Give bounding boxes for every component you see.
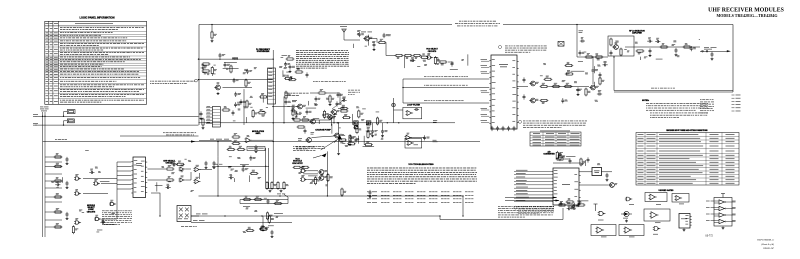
boxed resistor option R2 xyxy=(67,119,74,123)
capacitor C11 xyxy=(66,157,69,162)
DIP IC U253 on bus xyxy=(268,68,276,104)
table LPI row 3 description xyxy=(60,34,101,37)
notes side column xyxy=(700,99,714,113)
cluster comps above vco left xyxy=(227,146,236,151)
transistor Q72 xyxy=(333,133,342,138)
sprinkle component caph at 605,64 xyxy=(603,61,608,66)
gnd C12 xyxy=(66,186,69,189)
capacitor C113 xyxy=(451,61,454,66)
resistor R81 xyxy=(232,133,241,138)
unused nand U904A xyxy=(594,204,598,211)
sprinkle wire xyxy=(318,120,320,124)
capacitor C223 xyxy=(577,87,580,92)
note above band lines right xyxy=(505,46,547,53)
nand gate U91A xyxy=(300,167,307,173)
sprinkle wire xyxy=(156,182,158,191)
note charge pump bottom xyxy=(296,147,315,150)
boxed resistor on line B1 xyxy=(354,121,359,125)
resistor R67 xyxy=(329,95,334,104)
resistor R65 xyxy=(340,107,349,112)
resistor R204 xyxy=(540,83,549,88)
note text right of logic table xyxy=(150,81,195,84)
capacitor C310 xyxy=(560,201,563,206)
sprinkle component hres at 261,112 xyxy=(258,109,267,114)
sprinkle wire xyxy=(450,68,458,70)
sprinkle labels xyxy=(559,152,601,165)
arrow bottom left PTT xyxy=(338,135,343,140)
table model frequencies title xyxy=(540,130,570,133)
resistor R75 xyxy=(338,139,347,143)
label right end y122.8 xyxy=(433,120,437,122)
sprinkle labels xyxy=(279,57,289,76)
svg-text:UNUSED GATES: UNUSED GATES xyxy=(659,189,675,192)
sprinkle wire xyxy=(656,58,663,60)
unused diode CR901 xyxy=(621,211,632,216)
sprinkle wire xyxy=(262,96,264,103)
label TP1 xyxy=(340,25,347,28)
sprinkle component capv at 573,206 xyxy=(572,204,579,209)
wire bus x117 to U10 pins xyxy=(116,162,118,190)
capacitor C221 xyxy=(523,77,526,82)
wire tp1 down xyxy=(344,34,360,40)
dark connector square J7 xyxy=(355,126,358,129)
svg-text:MODELS TRE4281G—TRE4284G: MODELS TRE4281G—TRE4284G xyxy=(717,13,778,18)
resistor R66 xyxy=(318,89,327,94)
sprinkle component caph at 168,187 xyxy=(166,184,171,189)
sprinkle wire xyxy=(571,70,585,72)
wire q206 collector up xyxy=(592,73,594,84)
wire synth y79.6 xyxy=(199,79,274,81)
wire band select 2 xyxy=(403,87,489,89)
capacitor C62 xyxy=(306,109,312,114)
unused opamp U902A with feedback box xyxy=(645,193,667,202)
gnd c122 xyxy=(213,166,216,169)
capacitor C35 xyxy=(267,199,270,204)
table LPI row 14 description xyxy=(60,68,124,71)
gnd q111 xyxy=(373,48,376,51)
resistor R215 xyxy=(660,43,669,48)
capacitor C132 xyxy=(355,137,358,142)
sprinkle wire xyxy=(566,156,575,158)
boxed resistor option R1 xyxy=(67,110,75,114)
transistor Q61 xyxy=(296,104,306,109)
resistor R34 xyxy=(274,200,283,205)
resistor R113 xyxy=(395,54,404,58)
right pin column with ticks xyxy=(732,95,741,112)
gnd extra1 xyxy=(329,103,332,106)
module boundary right border xyxy=(732,25,734,93)
stub below top border x212 xyxy=(211,25,213,33)
sprinkle wire xyxy=(97,229,102,231)
vertical wire from top border x577 xyxy=(576,25,578,58)
sprinkle wire xyxy=(155,184,163,186)
resistor R251 xyxy=(202,63,211,67)
notes bullets paragraph xyxy=(646,103,708,110)
sprinkle wire xyxy=(104,224,115,226)
capacitor C66 xyxy=(337,92,343,97)
wire into loop filter xyxy=(394,109,403,111)
sprinkle component caph at 344,100 xyxy=(341,97,346,102)
resistor R216 xyxy=(683,43,692,48)
sprinkle wire xyxy=(100,181,110,183)
label TP right xyxy=(433,140,438,142)
sprinkle component capv at 330,117 xyxy=(329,115,335,120)
resistor R16 xyxy=(54,223,63,228)
sprinkle labels xyxy=(287,98,345,118)
U301 pin feeder lines xyxy=(514,170,551,202)
resistor R15 xyxy=(54,208,63,213)
gnd C141 xyxy=(371,134,374,137)
resistor R112 xyxy=(378,39,387,44)
gnd c212 xyxy=(675,54,678,57)
note paragraph under U10 xyxy=(102,211,132,225)
svg-text:LOGIC PANEL INFORMATION: LOGIC PANEL INFORMATION xyxy=(80,17,115,20)
wire gate outputs to bus x117 xyxy=(83,178,117,180)
U201 label xyxy=(499,63,508,66)
wire vcosel out xyxy=(434,58,438,63)
series resistors into gate U91A xyxy=(293,166,302,168)
wire x244 riser xyxy=(243,89,245,125)
sprinkle component vres at 377,120 xyxy=(376,117,382,126)
unused gate array gnd xyxy=(722,227,725,230)
wire y216 jog down to y219.5 xyxy=(440,208,563,220)
sprinkle component caph at 57,184 xyxy=(55,181,60,186)
label receiver frequency ranges xyxy=(459,20,496,23)
sprinkle labels xyxy=(584,41,680,59)
sprinkle wire xyxy=(266,106,268,108)
sprinkle component hres at 569,73 xyxy=(565,70,574,75)
vertical bus line A xyxy=(42,112,44,237)
wire extra mid xyxy=(310,92,318,94)
transistor Q111 xyxy=(363,36,372,41)
sprinkle wire xyxy=(352,44,354,48)
wire y196 supply line xyxy=(199,195,464,197)
sprinkle component capv at 384,35 xyxy=(383,33,389,38)
resistor R14 xyxy=(54,193,63,198)
test point TP202 circle xyxy=(702,50,704,52)
opamp U102 boxed below xyxy=(405,139,422,148)
sprinkle component hres at 263,229 xyxy=(259,226,268,231)
wire main vertical bus x273 xyxy=(272,50,274,185)
svg-text:RISSD–OP: RISSD–OP xyxy=(762,247,774,250)
sprinkle wire xyxy=(170,162,176,164)
resistor R205 xyxy=(540,99,549,103)
unused opamp U905A with feedback box xyxy=(644,209,670,221)
wire chain y86.5 xyxy=(549,86,590,88)
sprinkle labels xyxy=(410,59,464,67)
capacitor C213 xyxy=(711,52,714,57)
wire x463 riser xyxy=(462,196,464,216)
label electrical feedback xyxy=(651,87,675,90)
U301 label xyxy=(562,183,570,186)
svg-text:NOTES:: NOTES: xyxy=(642,100,650,102)
gnd r132 xyxy=(349,143,352,146)
resistor R253 xyxy=(226,65,232,74)
unused gate U910A xyxy=(653,227,661,231)
sprinkle component caph at 293,110 xyxy=(291,107,296,112)
sprinkle wire xyxy=(467,54,469,65)
sprinkle wire xyxy=(211,75,213,76)
opamp U107 xyxy=(405,133,412,140)
sprinkle component vres at 315,180 xyxy=(314,176,320,185)
loop filter box xyxy=(403,107,422,118)
note under U301 xyxy=(518,207,554,214)
label y196 line xyxy=(277,193,285,196)
capacitor C255 right xyxy=(285,99,291,104)
capacitor C305 xyxy=(606,173,609,178)
sprinkle component caph at 649,41 xyxy=(647,38,652,43)
resistor R201 stub xyxy=(211,31,217,40)
wire q206 top to y57 xyxy=(592,57,594,68)
sprinkle component capv at 243,169 xyxy=(242,167,249,172)
capacitor C302 xyxy=(587,157,590,162)
circled number note xyxy=(195,79,198,82)
table LPI row 2 description xyxy=(60,31,113,34)
sprinkle labels xyxy=(357,30,391,46)
leader diagonal line xyxy=(321,140,337,150)
resistor R310 xyxy=(566,198,575,203)
vco troubleshooting paragraph xyxy=(367,168,477,184)
capacitor C65 xyxy=(315,96,321,101)
transistor Q92 xyxy=(318,176,328,181)
transistor Q73 top xyxy=(309,119,315,124)
resistor R132 xyxy=(349,134,355,143)
nand gate U2B xyxy=(109,200,116,206)
resistor R209 xyxy=(599,77,605,86)
gnd Q31 xyxy=(271,235,274,238)
svg-text:CHARGE PUMP: CHARGE PUMP xyxy=(315,129,331,132)
sprinkle labels xyxy=(243,198,279,233)
sprinkle wire xyxy=(330,118,332,126)
wire arrows above bottom note xyxy=(505,197,556,199)
label ANT JACK xyxy=(704,47,717,49)
label TX small xyxy=(292,99,297,102)
table LOGIC PANEL INFORMATION frame xyxy=(45,21,147,104)
table LPI row 21 description xyxy=(60,94,144,97)
transistor Q251 xyxy=(214,83,220,90)
sprinkle wire xyxy=(246,117,248,123)
svg-text:VCO TROUBLESHOOTING: VCO TROUBLESHOOTING xyxy=(408,164,434,166)
wire band select left riser xyxy=(402,79,404,103)
table RIP column lines xyxy=(644,133,646,186)
nand gate U111 xyxy=(426,53,433,59)
capacitor C111 xyxy=(373,42,376,47)
resistor R21 xyxy=(166,165,175,170)
module boundary bottom-right border xyxy=(614,91,733,93)
gnd c61 xyxy=(289,70,292,73)
opamp U121 xyxy=(194,165,201,172)
sprinkle component vres at 253,113 xyxy=(252,109,258,118)
gnd C142 xyxy=(381,134,384,137)
buffer gate U11B xyxy=(179,176,186,182)
resistor R213 xyxy=(595,56,604,60)
resistor R12 xyxy=(54,163,63,168)
IC U201 frequency synthesizer xyxy=(489,55,518,129)
sprinkle wire xyxy=(357,136,359,144)
table RIP frame xyxy=(636,133,739,186)
sprinkle wire xyxy=(593,82,595,88)
crystal Y201 box with X xyxy=(558,42,564,47)
sprinkle wire xyxy=(313,117,319,119)
sprinkle labels xyxy=(228,156,261,179)
nand gate U2A xyxy=(94,215,101,221)
table LPI row 19 description xyxy=(60,84,144,87)
wire synth top y59.1 xyxy=(199,58,274,60)
transistor Q71 xyxy=(305,138,311,143)
sprinkle component caph at 368,130 xyxy=(366,127,371,132)
wire Q31 up xyxy=(262,216,264,226)
test point antenna TP1 xyxy=(342,29,347,34)
table LPI row 13 description xyxy=(60,65,102,68)
sprinkle component hres at 254,173 xyxy=(250,170,259,175)
table model frequencies frame xyxy=(530,132,581,146)
opamp U101 inside loop filter xyxy=(406,110,414,115)
wire to antenna jack xyxy=(700,50,727,52)
capacitor C34 xyxy=(271,230,274,235)
DIP IC U254 lower xyxy=(212,107,220,128)
sprinkle component caph at 91,172 xyxy=(89,169,94,174)
wire band select 3 xyxy=(403,102,489,104)
wire loop y197-203 xyxy=(239,200,241,204)
table RIP row lines xyxy=(636,136,739,138)
wire main horizontal y122.8 xyxy=(199,122,456,124)
sprinkle component vres at 358,113 xyxy=(358,110,364,119)
sprinkle wire xyxy=(308,175,317,177)
wire lo amp out xyxy=(625,46,635,48)
test point TP201 circle xyxy=(706,50,708,52)
wire vertical x338.6 xyxy=(338,123,340,152)
arrow into charge pump xyxy=(321,153,326,157)
boxed resistor on line B2 xyxy=(366,121,371,125)
table LPI row 11 description xyxy=(60,60,125,63)
sprinkle wire xyxy=(223,67,239,69)
gnd cp2 xyxy=(337,152,340,155)
sprinkle component hres at 547,79 xyxy=(544,76,553,81)
note pair y93.5 xyxy=(285,93,309,96)
resistor R206 xyxy=(552,83,561,88)
module boundary top border xyxy=(199,24,452,26)
capacitor C121 xyxy=(205,161,208,166)
wire buffers out xyxy=(185,168,191,170)
comps right of U254 xyxy=(222,106,231,111)
gnd q61 xyxy=(292,117,295,120)
svg-text:SYNTHESIZER: SYNTHESIZER xyxy=(257,51,270,53)
sprinkle component vres at 368,134 xyxy=(367,130,372,139)
label bus2 left xyxy=(33,123,38,125)
vco voltage rows xyxy=(367,191,473,194)
sprinkle wire xyxy=(331,124,333,134)
junction y196 xyxy=(341,195,342,196)
wire mid horizontal y166.3 xyxy=(212,165,269,167)
sprinkle component hres at 305,120 xyxy=(301,116,310,121)
wire q251 to bus xyxy=(223,87,253,89)
wire riser x268.7 xyxy=(268,148,270,189)
svg-text:HEPS74660B–C: HEPS74660B–C xyxy=(756,239,774,242)
sprinkle component hres at 263,96 xyxy=(259,93,268,98)
sprinkle component hres at 368,144 xyxy=(364,141,373,146)
sprinkle component capv at 235,104 xyxy=(234,102,241,107)
gnd c223 xyxy=(577,93,580,96)
circled 5 xyxy=(514,206,517,209)
sprinkle wire xyxy=(306,107,316,109)
wire u201 to q204 xyxy=(517,86,528,88)
unused opamp U908A with feedback box xyxy=(591,225,616,236)
capacitor C63 xyxy=(306,72,309,77)
capacitor C252 on y79 xyxy=(233,78,239,83)
wire ad top xyxy=(553,162,581,164)
wire long horizontal y222.5 xyxy=(191,222,292,224)
unused quad gate array U907 xyxy=(714,198,732,227)
resistor R301 xyxy=(556,155,565,160)
sprinkle labels xyxy=(161,159,193,192)
sprinkle labels xyxy=(202,65,257,75)
sprinkle component hres at 568,65 xyxy=(564,62,573,67)
gnd C11 xyxy=(66,162,69,165)
transistor Q131 xyxy=(330,110,339,115)
capacitor C222 xyxy=(523,94,526,99)
wire feedback left drop xyxy=(613,57,615,91)
wire feedback y90.5 xyxy=(614,90,733,92)
sprinkle wire xyxy=(237,101,242,103)
wire q61 area xyxy=(273,106,297,108)
bold box AD right xyxy=(592,168,602,176)
sprinkle component caph at 231,177 xyxy=(228,174,233,179)
capacitor C211 xyxy=(649,48,652,53)
sprinkle component capv at 235,94 xyxy=(234,92,241,97)
sprinkle wire xyxy=(363,146,375,148)
comps right of note xyxy=(558,201,567,206)
resistor R214 xyxy=(636,50,645,54)
transistor Q204 xyxy=(529,81,539,86)
table LPI row lines xyxy=(45,31,147,98)
sprinkle component hres at 424,57 xyxy=(420,54,429,59)
resistor R210 xyxy=(610,38,612,47)
table LPI pin and signal cells xyxy=(46,28,58,101)
label on y141.5 wire xyxy=(55,138,67,141)
leader diagonal q62 xyxy=(332,99,345,109)
sprinkle wire xyxy=(573,203,575,208)
U201 left pin wires xyxy=(481,59,490,122)
label band select 2 xyxy=(424,84,468,87)
resistor R207 xyxy=(564,83,573,88)
vertical bus line B xyxy=(44,112,46,237)
gnd c211 xyxy=(649,54,652,57)
sprinkle wire xyxy=(403,56,405,68)
capacitor C71 xyxy=(304,128,307,133)
nand gate U1A xyxy=(74,174,81,180)
label P1 pins xyxy=(178,218,188,221)
transistor Q62 xyxy=(326,115,332,120)
wire vco select xyxy=(386,55,395,57)
table LPI row 20 description xyxy=(60,89,144,92)
svg-text:CONVERTER: CONVERTER xyxy=(543,154,555,156)
resistor R254 on y79 xyxy=(245,79,251,88)
transistor Q91 xyxy=(318,170,327,175)
sprinkle component vres at 212,70 xyxy=(211,66,217,75)
sprinkle wire xyxy=(303,173,318,175)
sprinkle wire xyxy=(639,57,641,60)
svg-text:CIRCUITRY: CIRCUITRY xyxy=(292,163,303,165)
wire conn P1 right xyxy=(191,215,199,217)
gnd q251 xyxy=(217,92,220,95)
label y166 wire xyxy=(214,163,222,166)
opamp U122 xyxy=(194,177,201,184)
svg-text:AMPLIFIER: AMPLIFIER xyxy=(632,32,642,35)
transistor Q210 xyxy=(612,42,618,49)
svg-text:LOOP FILTER: LOOP FILTER xyxy=(407,105,421,107)
wire riser x265.7 xyxy=(265,148,267,189)
comps left of U254 xyxy=(200,111,203,116)
